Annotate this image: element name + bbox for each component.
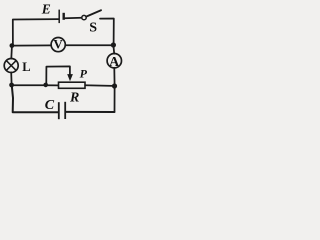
junction node dot (left wire / voltmeter branch) (10, 43, 15, 48)
junction node dot (left wire / rheostat branch) (9, 83, 14, 88)
wire rheostat exit to right-wire junction (85, 84, 112, 87)
lamp L cross (6, 61, 16, 71)
svg-text:C: C (45, 98, 55, 113)
wire switch fixed contact to top-right corner and down (100, 19, 114, 45)
wire lower-left junction down to bottom-left corner, along bottom to capacitor (12, 86, 58, 113)
wire left: V-junction down to lamp top (10, 47, 13, 59)
svg-text:E: E (41, 1, 51, 16)
battery E long plate (58, 10, 60, 24)
svg-text:L: L (22, 60, 30, 74)
capacitor C left plate (58, 102, 60, 119)
capacitor C right plate (64, 102, 66, 119)
wire voltmeter branch left segment (13, 44, 51, 46)
wire battery to switch (65, 17, 82, 19)
wire voltmeter branch right segment (65, 44, 111, 46)
ammeter A circle (107, 54, 121, 68)
junction node dot (rheostat branch / slider feed) (43, 83, 48, 88)
svg-text:A: A (109, 55, 120, 70)
wire lamp bottom to lower-left junction (10, 72, 12, 84)
battery E short thick plate (63, 13, 65, 20)
wire ammeter bottom to R-junction to bottom-right corner (113, 68, 115, 112)
wire slider feed: junction up, over, down to wiper (46, 66, 70, 83)
junction node dot (right wire / voltmeter branch) (111, 42, 116, 47)
junction node dot (right wire / rheostat exit) (112, 83, 117, 88)
lamp L circle (4, 59, 18, 73)
switch S lever (86, 10, 101, 16)
rheostat R body box (59, 82, 86, 88)
svg-text:P: P (80, 67, 88, 81)
switch S pivot circle (82, 15, 86, 19)
wire top-left corner to battery (13, 19, 59, 44)
svg-text:V: V (53, 37, 63, 52)
wire rheostat branch: junction to box left terminal (14, 84, 59, 86)
wire capacitor right plate to bottom-right corner (66, 111, 114, 113)
svg-text:R: R (69, 90, 79, 105)
svg-text:S: S (89, 21, 97, 36)
slider P arrowhead (67, 74, 73, 81)
wire V-junction to ammeter top (113, 47, 116, 53)
voltmeter U1 circle (51, 38, 65, 52)
